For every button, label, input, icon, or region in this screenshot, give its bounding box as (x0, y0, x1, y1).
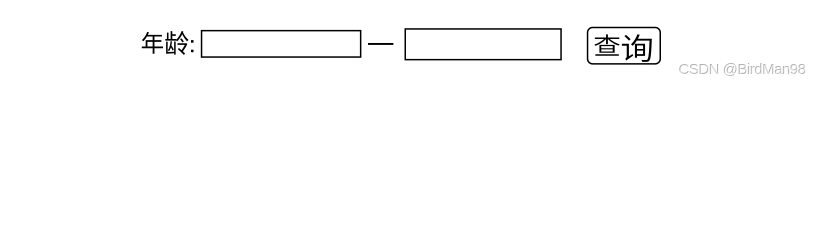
button label 询 (622, 34, 652, 62)
input box 1 (min age) (202, 31, 361, 57)
label 龄 (165, 31, 188, 55)
button 查询 (query) (588, 28, 661, 64)
label colon (191, 40, 194, 43)
input box 2 (max age) (405, 29, 561, 60)
em dash separator (368, 43, 393, 45)
button label 查 (594, 34, 620, 55)
svg-text:CSDN @BirdMan98: CSDN @BirdMan98 (679, 62, 806, 79)
label 年 (142, 32, 163, 54)
